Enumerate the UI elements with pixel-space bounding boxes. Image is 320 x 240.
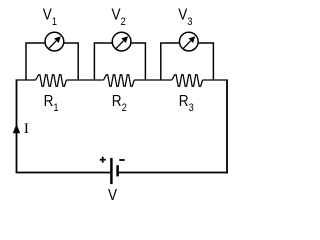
meter body circle: [45, 32, 64, 51]
voltmeter U1 (V1 meter): [26, 32, 78, 80]
wire: top segment between R2 and R3: [134, 79, 172, 81]
wire: V3 left lead: [161, 43, 179, 80]
wire: V2 left lead: [94, 43, 112, 80]
wire: V3 right lead: [198, 43, 213, 80]
voltmeter U2 (V2 meter): [94, 32, 145, 80]
meter needle: [49, 41, 56, 49]
meter needle: [183, 41, 190, 49]
wire: bottom left segment to battery positive plate: [16, 172, 112, 174]
current arrow I (pointing up on left wire): [13, 124, 21, 133]
resistor R2: [104, 75, 135, 86]
wire: bottom right segment from battery negative plate: [118, 172, 228, 174]
resistor R3: [172, 75, 203, 86]
meter body circle: [179, 32, 198, 51]
wire: right edge of loop: [226, 79, 228, 173]
wire: top-right segment from R3 to right corner: [203, 79, 227, 81]
battery V: negative short plate: [116, 165, 119, 176]
resistor R1: [36, 75, 67, 86]
wire: V1 left lead: [26, 43, 45, 80]
wire: V1 right lead: [64, 43, 78, 80]
svg-text:I: I: [24, 121, 29, 137]
meter needle: [116, 41, 123, 49]
wire: top-left segment from left corner to R1: [16, 79, 36, 81]
wire: left edge of loop: [16, 79, 18, 172]
meter needle head: [54, 36, 61, 43]
wire: top segment between R1 and R2: [66, 79, 103, 81]
meter body circle: [112, 32, 131, 51]
svg-text:V: V: [108, 187, 117, 204]
battery plus sign: [100, 157, 106, 163]
battery V: positive long plate: [110, 158, 113, 184]
wire: V2 right lead: [131, 43, 145, 80]
battery minus sign: [119, 159, 124, 161]
meter needle head: [121, 36, 128, 43]
meter needle head: [189, 36, 196, 43]
voltmeter U3 (V3 meter): [161, 32, 214, 80]
